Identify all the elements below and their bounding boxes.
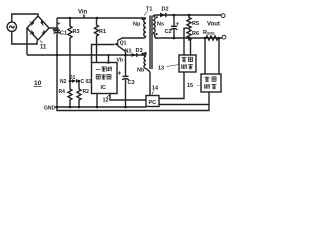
- svg-text:14: 14: [152, 86, 159, 92]
- wire secondary output rail: [156, 14, 222, 16]
- wire bridge minus (left corner) down to primary return bus: [26, 28, 28, 55]
- box photocoupler PC 14: [146, 96, 159, 107]
- capacitor C3: [125, 55, 127, 76]
- AC source V: [7, 22, 16, 31]
- junction C3 bottom on GND rail: [124, 106, 127, 109]
- polarity dot Ns bottom: [155, 33, 157, 35]
- svg-text:N1: N1: [125, 49, 132, 55]
- terminal Vout-: [222, 35, 226, 39]
- svg-text:Nb: Nb: [137, 68, 145, 74]
- transistor Q1: [117, 40, 119, 46]
- leader label 14: [152, 91, 154, 95]
- wire Ns top lead: [153, 15, 156, 16]
- capacitor C1: [57, 22, 60, 25]
- wire primary return bus Vb: [27, 54, 146, 56]
- polarity dot Ns top: [156, 16, 158, 18]
- leader label 11: [40, 41, 43, 44]
- junction C2 top on output rail: [173, 14, 176, 17]
- svg-text:D2: D2: [162, 7, 169, 13]
- svg-text:C 02: C 02: [81, 79, 92, 85]
- svg-text:11: 11: [40, 45, 47, 51]
- polarity dot Np: [141, 18, 143, 20]
- svg-text:Vout: Vout: [207, 22, 220, 28]
- svg-text:GND: GND: [44, 105, 56, 111]
- resistor R4: [68, 81, 72, 107]
- wire IC feedback to photocoupler: [110, 94, 146, 101]
- svg-text:13: 13: [158, 66, 164, 72]
- junction R2 bottom on GND rail: [78, 106, 81, 109]
- junction C2 bottom on return line: [173, 37, 176, 40]
- junction Vb pin at IC top: [107, 61, 110, 64]
- text voltage detect (fake kanji): [182, 57, 194, 69]
- wire Nb bottom to photocoupler: [146, 69, 150, 96]
- leader label 15: [197, 85, 201, 87]
- wire GND rail: [55, 106, 146, 108]
- svg-text:D3: D3: [136, 48, 143, 54]
- wire bridge plus (right corner) to Vin column: [49, 27, 57, 29]
- capacitor C2: [173, 15, 175, 26]
- svg-text:10: 10: [34, 80, 42, 87]
- wire voltage detector to PC: [159, 72, 184, 99]
- wire AC bottom to bridge bottom corner: [12, 32, 37, 45]
- svg-text:R1: R1: [99, 29, 106, 35]
- svg-text:PC: PC: [149, 100, 157, 106]
- svg-text:IC: IC: [101, 85, 107, 91]
- svg-text:12: 12: [103, 98, 109, 104]
- svg-text:C2: C2: [165, 29, 172, 35]
- wire sense left to current detector: [204, 38, 206, 74]
- box current detector 15: [201, 74, 221, 92]
- transformer T1 core: [150, 16, 152, 70]
- svg-text:Vin: Vin: [78, 10, 88, 16]
- wire Ns bottom lead: [153, 33, 155, 38]
- IC U1 primary-side control IC box: [92, 63, 118, 94]
- wire gate drive from IC to Q1: [92, 45, 115, 63]
- svg-text:B1: B1: [53, 28, 60, 34]
- wire Vin rail: [57, 17, 146, 19]
- figure number 10 underline: [34, 86, 42, 88]
- text primary-side control IC (fake kanji): [96, 66, 112, 79]
- wire Q1 drain to primary bottom: [118, 36, 146, 40]
- resistor R5: [187, 15, 191, 30]
- wire sense right to current detector: [218, 38, 220, 74]
- wire current detector ground return: [57, 105, 209, 111]
- wire Vb stub into IC: [108, 55, 110, 63]
- junction bridge minus / C1 bottom on bus: [56, 54, 59, 57]
- wire bus to Nb top: [145, 53, 147, 56]
- svg-text:Rsns: Rsns: [203, 30, 215, 36]
- diode D3: [132, 53, 137, 57]
- node N2 / diode D1: [70, 80, 72, 82]
- svg-text:Q1: Q1: [120, 41, 127, 47]
- node N1 junction on bus: [124, 54, 127, 57]
- node Vin tick: [83, 15, 85, 19]
- resistor Rsns: [206, 36, 218, 40]
- wire secondary return line: [155, 37, 222, 39]
- wire current detector to PC: [159, 92, 209, 105]
- resistor R2: [77, 81, 81, 107]
- resistor R3: [68, 18, 72, 81]
- svg-text:D1: D1: [69, 75, 76, 81]
- junction C1 column on GND rail: [56, 106, 59, 109]
- transformer primary winding Np: [144, 19, 146, 37]
- resistor R1: [95, 18, 99, 63]
- transformer auxiliary winding Nb: [144, 53, 146, 69]
- svg-text:R5: R5: [192, 21, 199, 27]
- wire IC ground pin: [96, 94, 98, 108]
- diode bridge B1: [27, 16, 49, 40]
- node N2 junction: [69, 80, 72, 83]
- junction R4 bottom on GND rail: [69, 106, 72, 109]
- svg-text:R3: R3: [73, 29, 80, 35]
- junction Vb stub on bus: [108, 54, 110, 56]
- wire AC top to bridge top corner: [12, 14, 38, 22]
- svg-text:C3: C3: [128, 80, 135, 86]
- svg-text:N2: N2: [60, 79, 67, 85]
- leader label 12: [107, 94, 111, 98]
- svg-text:R6: R6: [192, 31, 199, 37]
- junction D1 cathode / R2 top: [78, 80, 81, 83]
- polarity dot Nb: [141, 52, 143, 54]
- junction R1 top on Vin rail: [96, 17, 99, 20]
- junction IC ground pin on GND rail: [96, 106, 99, 109]
- svg-text:C1: C1: [60, 31, 67, 37]
- wire return line to voltage detector: [190, 38, 192, 55]
- svg-text:T1: T1: [146, 7, 152, 13]
- transformer secondary winding Ns: [153, 16, 155, 33]
- leader label 13: [167, 65, 180, 67]
- junction R5 top on output rail: [188, 14, 191, 17]
- diode D2: [160, 13, 165, 17]
- svg-text:Vb: Vb: [117, 58, 123, 64]
- svg-text:15: 15: [187, 83, 193, 89]
- svg-text:Np: Np: [133, 22, 141, 28]
- terminal Vout+: [221, 14, 225, 18]
- node Vin column / capacitor C1 top lead: [56, 18, 58, 30]
- resistor R6: [187, 30, 191, 40]
- junction Rsns left on return line: [204, 37, 207, 40]
- svg-text:R4: R4: [59, 89, 66, 95]
- box voltage detector 13: [179, 55, 196, 72]
- text current detect (fake kanji): [205, 77, 217, 89]
- svg-text:Ns: Ns: [157, 22, 164, 28]
- leader label T1: [144, 11, 148, 16]
- junction R6 bottom on return line: [188, 37, 191, 40]
- junction Rsns right on return line: [218, 37, 221, 40]
- svg-text:R2: R2: [83, 89, 90, 95]
- junction R3 top on Vin rail: [69, 17, 72, 20]
- wire divider tap to voltage detector: [184, 28, 189, 55]
